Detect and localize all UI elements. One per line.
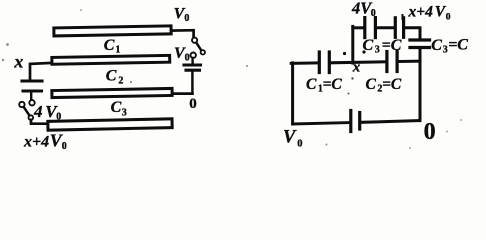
capacitor C3a plates (top row left): [365, 18, 376, 38]
svg-text:3: 3: [443, 44, 448, 55]
capacitor C3a' plates (top row right): [395, 18, 403, 38]
plate 1 (top plate of C1): [54, 26, 171, 36]
wire: right branch below C3b down to bottom right corner: [419, 49, 422, 120]
switch S2 blade (down-right to plate 4 wire): [24, 107, 30, 115]
switch S1 blade tip contact B: [201, 50, 205, 54]
svg-text:1: 1: [115, 45, 120, 56]
wire from switch S2 to plate 4 left end: [31, 120, 48, 124]
x terminal upper bar: [22, 79, 42, 82]
switch S2 pivot contact: [19, 102, 24, 107]
wire: top row segment 3 to top right corner: [405, 28, 420, 38]
plate 2 (between C1 and C2): [52, 55, 170, 64]
label C3=C (top middle): [363, 37, 402, 56]
stray mark near node x: [343, 52, 346, 55]
label x+4V0 (top right): [408, 3, 451, 22]
wire: top row segment 2: [377, 26, 394, 29]
label 0 (node at plate 3 right): [189, 96, 197, 112]
label V0 (bottom left): [283, 128, 303, 150]
capacitor C2 plates (middle row): [387, 52, 397, 72]
svg-text:x+4: x+4: [408, 3, 434, 20]
capacitor C1 plates (middle row): [319, 52, 329, 73]
stray tail under C3 label: [362, 50, 365, 53]
switch S1 blade (open, from A toward V0 terminal): [196, 43, 201, 51]
label 0 (bottom right): [424, 119, 436, 145]
svg-text:0: 0: [189, 96, 197, 112]
svg-text:=C: =C: [382, 76, 402, 93]
plate 3 (between C2 and C3): [52, 88, 172, 97]
V0 source lower bar: [186, 69, 200, 72]
svg-text:0: 0: [446, 12, 451, 22]
switch S1 contact A (on plate-1 wire): [192, 38, 197, 43]
capacitor C3b plates (right branch): [410, 40, 430, 48]
svg-text:0: 0: [184, 13, 189, 24]
wire from V0 source down to node 0: [191, 72, 194, 94]
svg-text:=C: =C: [323, 76, 343, 93]
svg-text:4: 4: [33, 102, 43, 121]
label C2=C: [366, 76, 402, 95]
V0 source upper bar: [184, 63, 201, 66]
svg-text:C: C: [306, 76, 317, 93]
V0 source fixed contact C: [191, 53, 196, 58]
label 4V0 (top): [351, 0, 376, 19]
x terminal lower bar: [23, 89, 42, 92]
svg-text:=C: =C: [448, 37, 468, 54]
svg-text:C: C: [106, 68, 117, 85]
svg-text:C: C: [366, 76, 377, 93]
label 4V0 (switch terminal): [33, 102, 61, 123]
svg-text:x: x: [13, 52, 23, 72]
wire: bottom row right segment: [362, 121, 420, 123]
label C2: [106, 68, 124, 87]
wire: middle row left segment: [291, 61, 318, 65]
wire: top row segment 1: [353, 26, 363, 29]
wire from plate 1 right end to switch A: [172, 30, 194, 37]
wire from node 0 to plate 3 right end: [173, 92, 192, 95]
label C3: [111, 99, 127, 118]
switch S2 blade tip contact: [29, 115, 34, 120]
svg-text:2: 2: [118, 76, 123, 87]
label x (potential of plate 2): [13, 52, 23, 72]
lead from x terminal lower bar to switch contact: [30, 93, 32, 101]
stray tick left of x+4V0: [402, 14, 404, 20]
label C3=C (right): [431, 37, 468, 56]
label x+4V0 (potential of plate 4): [23, 130, 67, 152]
scan speckles: [2, 9, 462, 149]
svg-text:C: C: [104, 37, 115, 54]
wire: bottom row left segment: [293, 123, 349, 124]
capacitor plates (bottom source): [351, 111, 360, 132]
wire: middle row right segment: [399, 60, 420, 63]
node x label: [352, 59, 361, 75]
wire from plate 2 left end to x terminal: [30, 63, 52, 79]
svg-text:0: 0: [424, 119, 436, 145]
label C1: [104, 37, 121, 56]
svg-text:V: V: [283, 128, 297, 148]
svg-text:0: 0: [62, 141, 67, 152]
plate 4 (bottom plate of C3): [48, 119, 172, 130]
switch S2 fixed contact (from x terminal): [29, 100, 34, 105]
svg-text:0: 0: [185, 53, 190, 64]
label V0 (middle right, source terminal): [174, 45, 190, 64]
V0 source lead (contact C to upper bar): [191, 58, 193, 63]
svg-text:x+4: x+4: [23, 133, 49, 150]
wire: node x up to top row: [351, 26, 354, 63]
label C1=C: [306, 76, 342, 95]
wire: right-circuit left branch (vertical): [291, 63, 294, 124]
svg-text:3: 3: [375, 44, 380, 55]
svg-text:C: C: [431, 37, 442, 54]
label V0 (top right, potential of plate 1): [174, 5, 190, 24]
svg-text:C: C: [111, 99, 122, 116]
svg-text:0: 0: [297, 138, 302, 149]
svg-text:3: 3: [122, 107, 127, 118]
wire: middle row center segment (through node x): [331, 62, 386, 63]
